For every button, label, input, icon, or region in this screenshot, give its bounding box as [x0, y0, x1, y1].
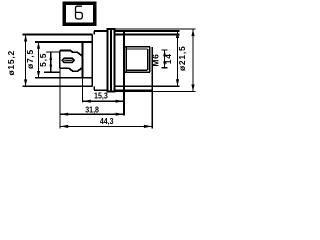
insert bottom edge	[60, 68, 83, 72]
dimension ø15,2 line	[25, 35, 27, 87]
ø15,2 arrows	[24, 35, 27, 42]
dimension line A (31 -> 86)	[177, 31, 179, 86]
dimension 14 line	[164, 50, 166, 68]
svg-text:ø7,5: ø7,5	[25, 49, 35, 69]
insert top edge	[60, 51, 83, 57]
figure number box	[64, 3, 94, 24]
svg-text:ø15,2: ø15,2	[6, 50, 16, 76]
labels	[6, 46, 187, 127]
5,5 lower tick	[44, 71, 61, 73]
dimension 5,5 line	[50, 52, 52, 72]
31,8 arrows	[60, 113, 68, 116]
nut top edge	[94, 30, 107, 32]
arrowheads	[24, 29, 195, 128]
collar bottom inner line / extension	[115, 85, 179, 87]
extension line top (ø21,5)	[115, 28, 195, 30]
stud major bottom	[125, 71, 150, 73]
flange line 3	[113, 29, 115, 92]
dimension line B ø21,5	[192, 29, 194, 92]
dimension 15,3 line	[83, 100, 124, 102]
slot centre line	[64, 59, 72, 61]
stud thread bottom	[127, 69, 148, 71]
svg-text:14: 14	[163, 53, 173, 64]
44,3 extension from stud face	[151, 47, 153, 129]
stud thread top	[127, 48, 148, 50]
svg-text:31,8: 31,8	[85, 105, 99, 115]
14 upper tick	[161, 49, 167, 51]
svg-text:44,3: 44,3	[100, 117, 114, 127]
dimension ø7,5 line	[38, 42, 40, 78]
bore upper line (ø7,5 upper edge + extension)	[35, 41, 92, 43]
bore lower line	[35, 77, 92, 79]
contact slot (eye)	[62, 58, 74, 62]
nut left face lower stub	[93, 86, 95, 90]
left extension down (31,8 / 44,3)	[59, 68, 61, 128]
insert left face	[59, 51, 61, 69]
stud left face	[125, 47, 127, 72]
5,5 upper tick	[46, 51, 60, 53]
flange bottom cap	[107, 91, 116, 93]
svg-text:ø21,5: ø21,5	[177, 46, 187, 72]
collar bottom edge	[115, 89, 152, 91]
nut bottom edge	[94, 89, 107, 91]
collar top edge / 14-extension	[115, 30, 179, 32]
digit 6	[76, 6, 83, 19]
dim A arrows	[176, 31, 179, 38]
extension line bottom (ø21,5)	[115, 91, 195, 93]
flange line 1	[106, 29, 108, 92]
insert right face	[82, 42, 84, 78]
dimension 44,3 line	[60, 125, 152, 127]
rear body right face / extension to dims	[123, 31, 125, 116]
dim B arrows	[191, 29, 194, 36]
dimension 31,8 line	[60, 113, 124, 115]
flange top cap	[107, 28, 116, 30]
flange line 2	[110, 29, 112, 92]
stud major top	[125, 46, 150, 48]
body right face	[91, 35, 93, 87]
svg-text:5,5: 5,5	[38, 53, 48, 67]
nut left face upper stub	[93, 31, 95, 35]
thread end line	[147, 49, 149, 70]
svg-text:M6: M6	[150, 53, 160, 66]
left body outer bottom line	[23, 85, 93, 87]
15,3 arrows	[83, 100, 91, 103]
5,5 arrows	[50, 52, 53, 60]
15,3 left extension	[82, 78, 84, 103]
14 arrows	[163, 50, 166, 56]
44,3 arrows	[60, 125, 68, 128]
svg-text:15,3: 15,3	[94, 91, 108, 101]
collar top inner line	[115, 33, 179, 35]
14 lower tick	[161, 67, 167, 69]
ø7,5 arrows	[37, 42, 40, 49]
left body outer top line (ø15,2 upper edge + extension)	[23, 34, 93, 36]
stud end face	[149, 47, 151, 72]
